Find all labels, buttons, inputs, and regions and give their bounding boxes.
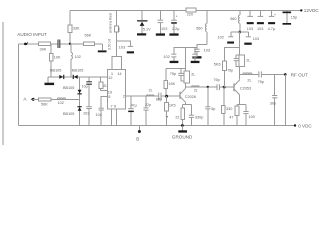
inductor 102 (varicap feed) (71, 44, 81, 77)
svg-text:47: 47 (229, 115, 233, 119)
svg-text:BB105: BB105 (50, 68, 61, 72)
svg-text:2L: 2L (149, 88, 153, 92)
transistor Q2 C2053 (233, 80, 251, 104)
capacitor 75p (T1 tank) (170, 68, 186, 81)
op-amp U1 (IC box) (107, 70, 125, 109)
ground symbol (GROUND) (172, 124, 193, 140)
resistor 39K (39, 42, 51, 51)
svg-text:560: 560 (230, 17, 236, 21)
capacitor 5p (T2 tank) (227, 55, 240, 72)
capacitor 103 (rail top right b) (257, 10, 264, 31)
label 3.5t 0.6 (vertical) (108, 39, 112, 50)
wire audio input net (19, 44, 70, 126)
svg-text:76p: 76p (213, 78, 219, 82)
resistor 220 (series in rail) (186, 8, 196, 16)
wire T2 collector vertical (239, 32, 241, 80)
inductor 2L (T1 tank box) (184, 71, 195, 83)
svg-text:102: 102 (163, 55, 169, 59)
svg-text:GROUND: GROUND (172, 135, 193, 140)
resistor 560 (T1 supply) (196, 10, 207, 44)
inductor 2L (pin2 coil) (146, 88, 154, 96)
wire T2 supply bus (231, 31, 249, 33)
svg-text:102: 102 (58, 101, 64, 105)
capacitor 2.2u (rail bypass) (171, 10, 180, 33)
ground (102 left) (170, 61, 179, 63)
svg-text:2L: 2L (191, 72, 195, 76)
capacitor 75p (output series) (258, 71, 264, 83)
svg-text:75p: 75p (258, 80, 264, 84)
inductor osc coil box (above IC) (112, 57, 122, 70)
svg-text:102: 102 (75, 55, 81, 59)
svg-text:5K6: 5K6 (214, 63, 221, 67)
ground (56K) (98, 50, 107, 52)
svg-text:75p: 75p (227, 68, 233, 72)
svg-text:5.1V: 5.1V (143, 27, 151, 31)
svg-text:2L: 2L (246, 58, 250, 62)
svg-text:5p: 5p (211, 107, 215, 111)
ground (102 right) (191, 61, 200, 63)
svg-text:75p: 75p (170, 72, 176, 76)
resistor 33K (68, 10, 80, 44)
svg-text:220: 220 (187, 12, 193, 16)
resistor 5K6 (214, 48, 240, 88)
resistor 15K (164, 68, 176, 96)
capacitor 102 (T1 bypass right) (192, 48, 197, 61)
svg-text:RF OUT: RF OUT (291, 73, 308, 78)
svg-text:103: 103 (247, 27, 253, 31)
capacitor 10u (82, 77, 92, 106)
wire RF out down (284, 74, 286, 125)
capacitor 100 (T2 emitter) (243, 104, 254, 125)
wire bottom ground rail (19, 125, 295, 127)
resistor 47 (T2 emitter) (229, 104, 239, 125)
svg-text:14: 14 (117, 71, 122, 76)
capacitor 15p (feedthrough) (283, 10, 298, 24)
svg-text:56K: 56K (85, 34, 92, 38)
svg-text:103: 103 (83, 111, 89, 115)
svg-text:BB105: BB105 (63, 86, 74, 90)
resistor 560 (T2 supply) (230, 10, 240, 32)
svg-text:103: 103 (204, 48, 210, 52)
wire IC pin9 (115, 109, 117, 126)
wire top supply rail (70, 9, 301, 11)
node RF OUT terminal (284, 73, 308, 78)
diode zener 5.7V (137, 10, 151, 33)
svg-text:10µ: 10µ (82, 85, 88, 89)
node junction 15K/1K5/base (165, 95, 168, 98)
node junction T2 base (223, 86, 226, 89)
wire T2 emitter tie (237, 103, 246, 105)
capacitor 47u (128, 96, 137, 125)
ground (2.2u) (169, 33, 178, 35)
svg-text:560: 560 (196, 27, 202, 31)
svg-text:1K5: 1K5 (169, 103, 176, 107)
svg-text:22p: 22p (145, 103, 151, 107)
wire T1 supply bus (174, 48, 197, 54)
capacitor 103 (rail bypass) (158, 10, 168, 33)
border left edge line (2, 22, 4, 145)
svg-text:2L: 2L (247, 79, 251, 83)
svg-text:103: 103 (257, 27, 263, 31)
wire IC pin7 (111, 109, 113, 126)
svg-text:68p: 68p (156, 98, 162, 102)
svg-text:12: 12 (108, 75, 113, 80)
node junction 5p tap (207, 86, 209, 88)
svg-text:39K: 39K (40, 47, 47, 51)
svg-text:BB105: BB105 (72, 68, 83, 72)
wire tank T1 vertical (166, 48, 186, 87)
svg-text:12VDC: 12VDC (304, 8, 319, 13)
node 12VDC terminal (300, 8, 319, 13)
capacitor 102 (T2 bypass left) (218, 32, 235, 44)
diode BB105 D4 (63, 106, 82, 116)
ground (varactor net) (45, 83, 55, 85)
wire A net (33, 98, 80, 100)
capacitor coupling (audio) (58, 40, 60, 49)
svg-text:10K: 10K (54, 56, 61, 60)
svg-text:47µ: 47µ (131, 104, 137, 108)
node junction 33K/audio (69, 43, 71, 45)
node A terminal (23, 97, 34, 102)
svg-text:22: 22 (175, 116, 179, 120)
inductor 2L (output coil) (243, 73, 252, 83)
capacitor 22p (143, 96, 151, 125)
resistor 1K5 (165, 96, 176, 125)
resistor 10K (49, 44, 61, 77)
svg-text:103: 103 (253, 37, 259, 41)
capacitor 4.7u (rail top right) (268, 10, 276, 31)
label antenna feed (vertical) (109, 13, 113, 33)
ground (zener) (137, 33, 146, 35)
svg-text:0 VDC: 0 VDC (298, 123, 312, 128)
capacitor 103 (rail top right a) (247, 10, 254, 31)
resistor 56K (to ground) (70, 34, 103, 50)
diode BB105 D2 (72, 68, 83, 79)
svg-text:2.2µ: 2.2µ (172, 27, 180, 31)
capacitor 103 (osc) (119, 45, 134, 53)
inductor 2L (pin10 coil box) (99, 77, 107, 91)
svg-text:102: 102 (218, 35, 224, 39)
node junction 560/T2 (238, 31, 241, 34)
resistor 330 (222, 87, 233, 125)
inductor 2L (T2 tank box) (239, 55, 250, 66)
svg-text:33K: 33K (73, 27, 80, 31)
capacitor 104 (96, 108, 104, 125)
svg-text:56K: 56K (41, 103, 48, 107)
node B terminal (136, 126, 141, 142)
capacitor 102 (T1 bypass left) (163, 54, 176, 61)
svg-text:+: + (274, 13, 276, 17)
svg-text:4.7µ: 4.7µ (268, 27, 276, 31)
capacitor 330p (T1 emitter) (189, 105, 203, 126)
svg-text:3.5t 0.6: 3.5t 0.6 (108, 39, 112, 50)
transistor Q1 C2026 (179, 87, 196, 105)
capacitor 103 (T2 bypass right) (244, 32, 259, 45)
wire 560 to decoupling (197, 45, 207, 49)
diode BB105 D1 (50, 68, 64, 79)
capacitor 5p (to ground) (205, 87, 215, 126)
wire varactor net (to IC pin 12) (48, 77, 108, 83)
wire IC pin2 to T1 base (126, 95, 180, 97)
svg-text:C2026: C2026 (185, 95, 196, 99)
inductor 2L (T1 collector coil) (191, 86, 199, 93)
svg-text:330p: 330p (195, 116, 203, 120)
wire 510 to cap 103 (116, 41, 130, 46)
svg-text:330: 330 (226, 107, 232, 111)
svg-text:104: 104 (96, 113, 102, 117)
svg-text:2L: 2L (194, 89, 198, 93)
svg-text:7 9: 7 9 (111, 103, 117, 108)
capacitor 68p (series) (156, 93, 162, 102)
svg-text:antenna feed: antenna feed (109, 13, 113, 33)
svg-text:15K: 15K (168, 82, 175, 86)
svg-text:C2053: C2053 (240, 86, 251, 90)
diode BB105 D3 (63, 86, 82, 95)
ground (103) (156, 33, 165, 35)
svg-text:+: + (176, 15, 178, 19)
svg-text:30p: 30p (270, 102, 276, 106)
wire T1 emitter tie (183, 104, 192, 106)
capacitor 30p (output shunt) (270, 74, 278, 125)
ground (T1 decouple) (192, 56, 201, 58)
svg-text:15p: 15p (291, 15, 297, 19)
svg-text:510: 510 (117, 28, 121, 33)
node speck (1K5 line) (166, 116, 168, 118)
wire IC pin5 (101, 97, 107, 108)
node 0VDC terminal (294, 123, 313, 128)
wire RF output (240, 73, 286, 75)
resistor 510 (antenna feed line) (115, 10, 121, 56)
svg-text:B: B (136, 137, 139, 142)
svg-text:AUDIO INPUT: AUDIO INPUT (17, 32, 47, 37)
capacitor 103 (T1 decouple) (194, 48, 210, 56)
resistor 22 (T1 emitter) (175, 105, 184, 126)
resistor 56K (A net) (39, 98, 51, 107)
capacitor 76p (series) (213, 78, 234, 90)
svg-text:100: 100 (249, 115, 255, 119)
svg-text:103: 103 (119, 45, 125, 49)
wire varactor branch vertical (79, 77, 81, 126)
node audio input terminal (17, 32, 47, 45)
inductor 102 (A net coil) (57, 98, 65, 105)
wire T1 collector RF (186, 86, 217, 88)
svg-text:103: 103 (161, 27, 167, 31)
capacitor 103 (below 10u) (83, 107, 92, 126)
svg-text:BB105: BB105 (63, 112, 74, 116)
